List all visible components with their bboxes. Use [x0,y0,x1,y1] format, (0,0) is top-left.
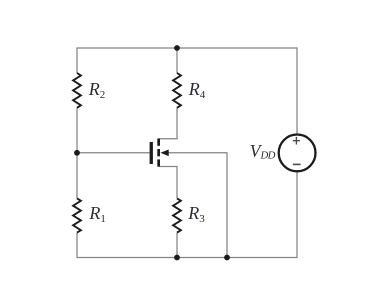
svg-text:VDD: VDD [250,141,276,161]
wire left rail below R1 [76,233,78,259]
svg-text:R1: R1 [88,203,106,225]
resistor R2 [73,73,81,108]
wire R4 branch upper stub [176,48,178,73]
resistor R1 [73,198,81,232]
voltage source VDD [279,135,316,172]
wire right rail upper [296,47,298,134]
junction dot bottom body [224,255,230,261]
junction dot gate node [74,150,80,156]
svg-text:R3: R3 [187,203,205,225]
junction dot top [174,45,180,51]
wire left rail above R2 [76,47,78,73]
resistor R3 [173,198,181,232]
svg-text:R4: R4 [188,79,206,101]
wire right rail lower [296,172,298,259]
wire top rail [77,47,297,49]
wire gate lead [77,152,150,154]
wire drain connection [160,108,178,139]
transistor Q1 (NMOS) [150,139,169,167]
wire body to bottom rail [168,153,227,258]
junction dot bottom R3 [174,255,180,261]
resistor R4 [173,73,181,108]
wire source connection [160,167,178,199]
wire left rail R2 to R1 [76,108,78,199]
wire R3 lower stub [176,233,178,258]
wire bottom rail [77,257,297,259]
svg-text:R2: R2 [88,79,106,101]
